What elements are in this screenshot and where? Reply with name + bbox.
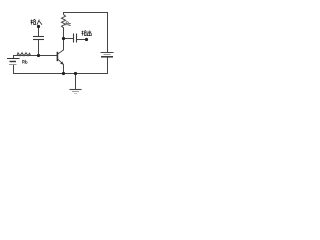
wire base rail (battery + through Rb to base) (14, 56, 58, 59)
label Rc (drawn strokes) (66, 22, 71, 26)
node emitter junction (62, 72, 65, 75)
transistor Q1 NPN (57, 39, 63, 74)
capacitor C2 output coupling (74, 34, 77, 43)
wire input cap to base junction (38, 40, 40, 56)
battery B1 left (7, 59, 20, 65)
ground (70, 74, 82, 94)
label Rb (drawn strokes) (22, 60, 27, 64)
label output 输出 (drawn strokes) (82, 31, 92, 36)
capacitor C1 input coupling (33, 37, 44, 40)
node output terminal (85, 38, 88, 41)
wire output cap to output terminal (77, 39, 87, 41)
wire bottom rail (battery - to emitter/ground/right battery) (14, 57, 108, 74)
battery B2 right (101, 53, 114, 57)
wire collector node to output cap (63, 38, 74, 40)
resistor Rb (17, 53, 31, 56)
node base junction (37, 54, 40, 57)
wire input terminal lead (38, 27, 40, 37)
label input 输入 (drawn strokes) (31, 19, 43, 24)
node input terminal (37, 25, 40, 28)
node ground junction (74, 72, 77, 75)
node collector junction (62, 37, 65, 40)
wire VCC top rail (64, 13, 108, 53)
resistor Rc (62, 15, 66, 39)
